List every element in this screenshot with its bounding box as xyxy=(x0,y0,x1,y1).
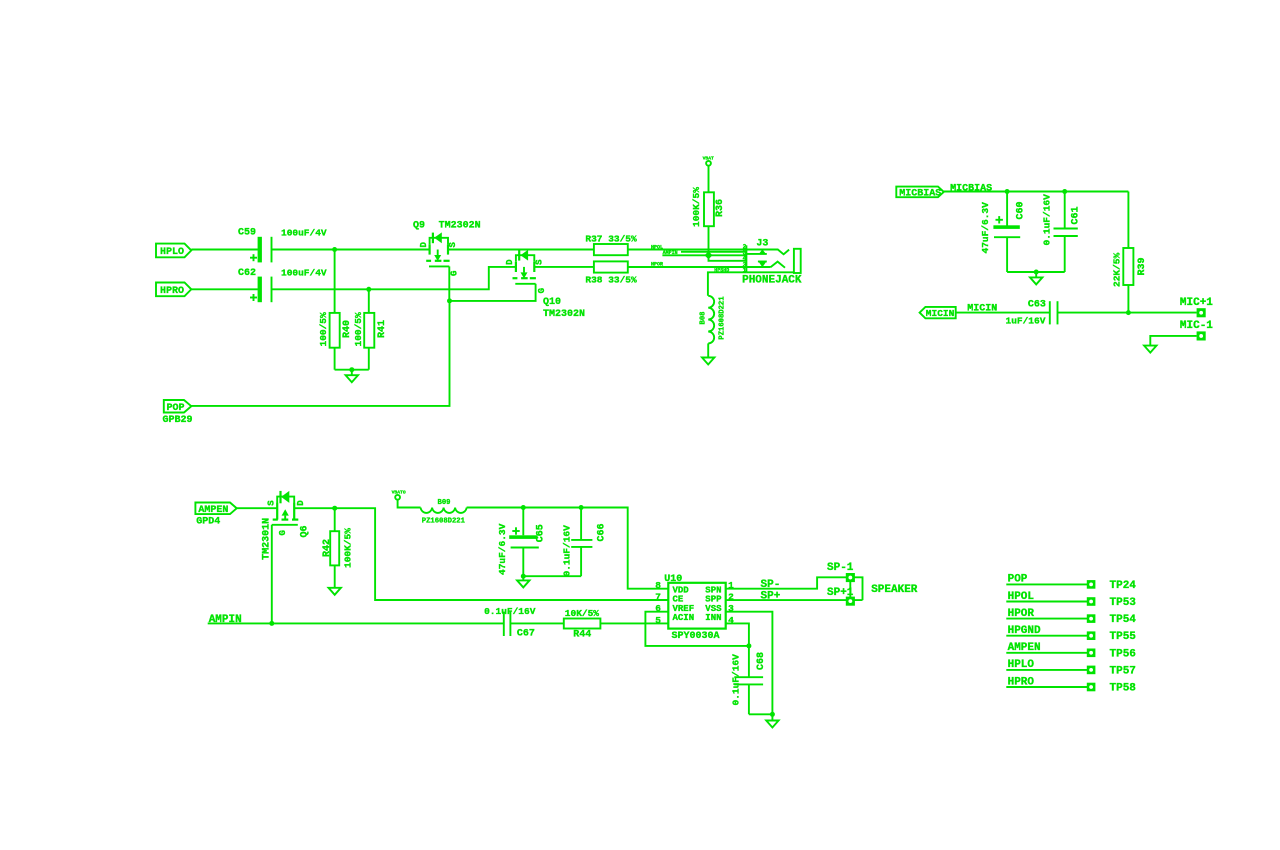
wire AMPEN to Q6 source xyxy=(237,507,278,509)
power port VBAT xyxy=(392,489,421,507)
svg-text:C68: C68 xyxy=(756,652,767,670)
svg-text:100/5%: 100/5% xyxy=(318,312,329,347)
capacitor C63 1uF/16V xyxy=(1006,299,1058,326)
wire C59 to Q9 drain xyxy=(272,249,430,251)
wire MIC-1 to ground xyxy=(1150,336,1196,346)
testpoint TP54 net HPOR xyxy=(1006,608,1136,626)
svg-text:TP58: TP58 xyxy=(1110,683,1137,695)
svg-text:SP-1: SP-1 xyxy=(827,562,854,574)
node VREF/INN junction xyxy=(746,643,751,648)
transistor Q10 TM2302N xyxy=(505,250,585,320)
svg-text:Q9: Q9 xyxy=(413,221,425,232)
svg-text:10K/5%: 10K/5% xyxy=(565,608,600,619)
wire HPRO to C62 xyxy=(191,288,258,290)
svg-text:HPOR: HPOR xyxy=(651,262,663,268)
node C66 junction xyxy=(579,505,584,510)
node ground junction xyxy=(349,367,354,372)
wire Q10 source to R38 xyxy=(534,266,594,268)
port POP xyxy=(163,400,193,426)
ground under B08 xyxy=(702,358,714,365)
svg-text:MICBIAS: MICBIAS xyxy=(899,189,941,200)
capacitor C60 47uF/6.3V xyxy=(980,192,1026,273)
svg-text:HPRO: HPRO xyxy=(160,286,184,297)
wire MICIN to C63 xyxy=(956,312,1050,314)
svg-text:TM2301N: TM2301N xyxy=(261,518,272,560)
svg-text:C63: C63 xyxy=(1028,299,1046,310)
testpoint TP57 net HPLO xyxy=(1006,659,1136,677)
port HPLO xyxy=(156,244,191,258)
port AMPEN xyxy=(195,503,236,528)
testpoint TP55 net HPGND xyxy=(1006,625,1136,643)
svg-text:PHONEJACK: PHONEJACK xyxy=(742,275,802,287)
capacitor C65 47uF/6.3V xyxy=(497,508,547,577)
resistor R39 22K/5% xyxy=(1112,192,1149,313)
svg-text:R38 33/5%: R38 33/5% xyxy=(585,275,637,286)
wire Q6 drain to U10 CE xyxy=(294,508,668,600)
resistor R37 33/5% xyxy=(585,234,637,256)
testpoint TP58 net HPRO xyxy=(1006,676,1136,694)
ground under C65 xyxy=(517,576,529,587)
svg-text:MIC-1: MIC-1 xyxy=(1180,320,1213,332)
wire C60/C61 ground rail xyxy=(1007,271,1065,273)
svg-text:C59: C59 xyxy=(238,228,256,239)
svg-text:S: S xyxy=(535,259,545,265)
svg-text:C66: C66 xyxy=(596,523,607,541)
speaker SP-1 xyxy=(827,562,918,605)
capacitor C68 0.1uF/16V xyxy=(731,646,767,714)
port HPRO xyxy=(156,283,191,298)
ground under R40/R41 xyxy=(346,370,358,383)
wire INN pin4 xyxy=(726,623,749,646)
svg-text:22K/5%: 22K/5% xyxy=(1112,252,1123,287)
node R39/MICIN junction xyxy=(1126,310,1131,315)
svg-text:GPD4: GPD4 xyxy=(196,517,220,528)
resistor R42 100K/5% xyxy=(322,508,354,588)
node C61 junction xyxy=(1062,189,1067,194)
svg-text:SPY0030A: SPY0030A xyxy=(672,631,720,642)
node AMPIN/R36 junction xyxy=(705,251,713,259)
wire VSS pin3 xyxy=(726,612,773,715)
node VSS ground junction xyxy=(770,712,775,717)
svg-text:100K/5%: 100K/5% xyxy=(691,187,702,227)
pin MIC+1 xyxy=(1180,297,1213,318)
svg-text:Q6: Q6 xyxy=(300,525,311,537)
node C65 junction xyxy=(521,505,526,510)
port MICBIAS xyxy=(896,187,944,200)
node HPRO/R41 junction xyxy=(366,287,371,292)
svg-text:G: G xyxy=(537,288,547,293)
wire R37 to jack pin2 xyxy=(628,249,747,251)
capacitor C67 0.1uF/16V xyxy=(484,606,536,639)
svg-text:R44: R44 xyxy=(573,629,591,640)
node C65 ground junction xyxy=(521,574,526,579)
svg-text:C65: C65 xyxy=(536,524,547,542)
wire HPLO to C59 xyxy=(191,249,258,251)
wire R40/R41 to ground xyxy=(335,369,369,371)
svg-text:TP57: TP57 xyxy=(1110,665,1136,677)
svg-text:INN: INN xyxy=(705,613,721,623)
svg-text:R40: R40 xyxy=(342,320,353,338)
svg-text:C62: C62 xyxy=(238,268,256,279)
testpoint TP24 net POP xyxy=(1006,574,1136,592)
wire R44 to U10 ACIN xyxy=(600,622,668,624)
node R42 junction xyxy=(332,506,337,511)
svg-text:MIC+1: MIC+1 xyxy=(1180,297,1213,309)
svg-text:AMPEN: AMPEN xyxy=(198,505,228,516)
svg-text:TM2302N: TM2302N xyxy=(543,309,585,320)
ground under C68 xyxy=(766,714,778,727)
wire Q9 gate down xyxy=(448,266,450,301)
inductor B08 PZ1608D221 xyxy=(700,296,727,344)
svg-text:0.1uF/16V: 0.1uF/16V xyxy=(731,654,742,706)
svg-text:GPB29: GPB29 xyxy=(163,415,193,426)
transistor Q9 TM2302N xyxy=(413,221,481,277)
connector J3 PHONEJACK xyxy=(681,238,802,286)
svg-text:MICBIAS: MICBIAS xyxy=(950,183,992,194)
svg-text:PZ1608D221: PZ1608D221 xyxy=(422,517,466,525)
ground under C60/C61 xyxy=(1030,272,1042,284)
svg-text:R36: R36 xyxy=(715,199,726,217)
wire B08 to ground xyxy=(707,343,709,357)
transistor Q6 TM2301N xyxy=(261,491,310,560)
capacitor C62 100uF/4V xyxy=(238,267,327,302)
testpoint TP53 net HPOL xyxy=(1006,591,1136,609)
svg-text:R39: R39 xyxy=(1137,257,1148,275)
svg-text:1uF/16V: 1uF/16V xyxy=(1006,315,1046,326)
wire MICBIAS rail xyxy=(944,191,1129,193)
inductor B09 PZ1608D221 xyxy=(421,499,467,525)
svg-text:R37 33/5%: R37 33/5% xyxy=(585,234,637,245)
svg-text:HPLO: HPLO xyxy=(160,247,184,258)
wire C68 to ground rail xyxy=(749,713,773,715)
svg-text:B08: B08 xyxy=(700,312,708,325)
svg-text:D: D xyxy=(505,259,515,265)
svg-text:100uF/4V: 100uF/4V xyxy=(281,227,327,238)
svg-text:TP54: TP54 xyxy=(1110,614,1137,626)
op-amp U10 SPY0030A xyxy=(655,574,734,642)
svg-text:100/5%: 100/5% xyxy=(353,312,364,347)
svg-text:D: D xyxy=(296,500,306,506)
resistor R41 100/5% xyxy=(353,289,388,369)
resistor R38 33/5% xyxy=(585,261,637,285)
svg-text:C67: C67 xyxy=(517,628,535,639)
svg-text:0.1uF/16V: 0.1uF/16V xyxy=(484,606,536,617)
resistor R36 100K/5% xyxy=(691,187,726,256)
resistor R40 100/5% xyxy=(318,250,353,370)
svg-text:PZ1608D221: PZ1608D221 xyxy=(718,296,726,340)
wire C62 to Q10 drain xyxy=(272,267,516,289)
svg-text:5: 5 xyxy=(655,615,661,626)
svg-text:ACIN: ACIN xyxy=(673,613,695,623)
wire R38 to jack pin3 xyxy=(628,266,771,268)
svg-text:G: G xyxy=(450,271,460,276)
svg-text:SPEAKER: SPEAKER xyxy=(871,584,918,596)
svg-text:100uF/4V: 100uF/4V xyxy=(281,267,327,278)
testpoint TP56 net AMPEN xyxy=(1006,642,1136,660)
capacitor C59 100uF/4V xyxy=(238,227,327,262)
ground under R42 xyxy=(329,588,341,595)
node Q6 gate/AMPIN junction xyxy=(269,621,274,626)
wire C65/C66 ground rail xyxy=(523,575,581,577)
svg-text:TM2302N: TM2302N xyxy=(439,221,481,232)
svg-text:J3: J3 xyxy=(756,238,768,249)
svg-text:R41: R41 xyxy=(377,320,388,338)
node gate junction xyxy=(447,298,452,303)
power port VB xyxy=(703,156,714,193)
node HPLO/R40 junction xyxy=(332,247,337,252)
svg-text:TP53: TP53 xyxy=(1110,597,1137,609)
svg-text:S: S xyxy=(448,242,458,248)
port MICIN xyxy=(920,307,956,319)
svg-text:8: 8 xyxy=(655,580,661,591)
svg-text:C61: C61 xyxy=(1071,206,1082,224)
wire VBAT rail to U10 VDD xyxy=(467,508,669,589)
svg-text:TP56: TP56 xyxy=(1110,648,1136,660)
capacitor C66 0.1uF/16V xyxy=(561,508,607,577)
svg-text:D: D xyxy=(419,242,429,248)
svg-text:47uF/6.3V: 47uF/6.3V xyxy=(980,202,991,254)
node C60 junction xyxy=(1005,189,1010,194)
svg-text:0.1uF/16V: 0.1uF/16V xyxy=(1042,194,1053,246)
svg-text:Q10: Q10 xyxy=(543,297,561,308)
svg-text:R42: R42 xyxy=(322,539,333,557)
svg-text:C60: C60 xyxy=(1015,201,1026,219)
wire Q10 gate down xyxy=(450,284,536,301)
svg-text:HPOL: HPOL xyxy=(651,244,663,250)
svg-text:MICIN: MICIN xyxy=(926,308,955,319)
wire C67 to R44 xyxy=(510,622,563,624)
svg-text:0.1uF/16V: 0.1uF/16V xyxy=(561,525,572,577)
svg-text:B09: B09 xyxy=(438,499,451,507)
svg-text:TP55: TP55 xyxy=(1110,631,1137,643)
wire AMPIN to jack pin5 xyxy=(662,254,746,256)
svg-text:100K/5%: 100K/5% xyxy=(342,528,353,568)
wire C63 to MIC+1 xyxy=(1058,312,1197,314)
wire HPSHD down to B08 xyxy=(708,272,747,296)
svg-text:TP24: TP24 xyxy=(1110,580,1137,592)
capacitor C61 0.1uF/16V xyxy=(1042,192,1082,273)
svg-text:G: G xyxy=(278,530,288,535)
wire junction to jack pin4 xyxy=(709,255,747,260)
wire AMPIN to C67 xyxy=(208,622,504,624)
wire POP to Q9/Q10 gates xyxy=(191,301,449,406)
wire VREF loop pin6 xyxy=(645,612,749,646)
wire Q6 gate to AMPIN xyxy=(271,525,273,624)
ground under MIC-1 xyxy=(1144,346,1156,353)
svg-text:POP: POP xyxy=(167,403,185,414)
svg-text:7: 7 xyxy=(655,592,661,603)
wire Q9 source to R37 xyxy=(448,249,594,251)
resistor R44 10K/5% xyxy=(564,608,601,640)
wire SPP to speaker xyxy=(726,599,863,601)
node ground rail junction xyxy=(1034,270,1039,275)
svg-text:47uF/6.3V: 47uF/6.3V xyxy=(497,523,508,575)
pin MIC-1 xyxy=(1180,320,1213,340)
wire SPN to speaker xyxy=(726,577,863,600)
svg-text:S: S xyxy=(267,500,277,506)
